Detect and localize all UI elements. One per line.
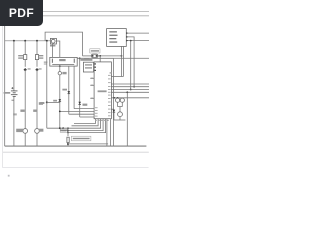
wire low join bbox=[46, 102, 48, 128]
relay switch bar bbox=[52, 63, 74, 65]
power module pin3 wire bbox=[126, 40, 149, 42]
ac label bbox=[40, 102, 44, 104]
indicator lamp A bbox=[116, 98, 120, 102]
connector C3 label bbox=[62, 72, 66, 74]
wire bus out 3 bbox=[111, 89, 149, 91]
wire lamp1 to ground bbox=[24, 134, 26, 147]
node join2 bbox=[62, 127, 64, 129]
wire join horizontal bbox=[47, 127, 63, 129]
wire bus into box y114 bbox=[80, 116, 94, 118]
scan image bottom line bbox=[3, 151, 149, 153]
logic box left stubs bbox=[90, 77, 94, 79]
wire y120 bbox=[114, 119, 126, 121]
wire ac junction to diode line bbox=[47, 101, 60, 103]
wire bus out 1 bbox=[111, 83, 149, 85]
wire top bus B bbox=[5, 15, 149, 17]
node bus2 bbox=[130, 89, 132, 91]
wire ground drop B bbox=[110, 119, 112, 146]
diode D4 right bbox=[111, 108, 114, 110]
fuse F2 label bbox=[39, 55, 43, 56]
wire wrap 3 bbox=[63, 119, 100, 129]
horn relay K1 bbox=[50, 38, 56, 44]
relay contact right bbox=[73, 59, 75, 63]
power module U2 bbox=[107, 29, 127, 47]
wire battery top bbox=[13, 41, 15, 91]
node diode line bus bbox=[59, 111, 61, 113]
wire y76 bbox=[111, 76, 123, 78]
wire lamp C bottom bbox=[119, 117, 121, 120]
wire indicator feed bbox=[111, 97, 149, 99]
wire label C2 right bbox=[33, 110, 37, 112]
wire fuse3 out bbox=[98, 55, 122, 57]
wire top bus A bbox=[5, 11, 149, 13]
resistor R1 current sensor bbox=[67, 128, 69, 136]
diode D3 label bbox=[83, 104, 88, 106]
wire bus into box y106 bbox=[74, 108, 94, 110]
page number speck bbox=[8, 175, 10, 177]
fuse F1 bbox=[24, 55, 27, 60]
relay box label bbox=[59, 59, 65, 61]
horn relay label bbox=[50, 45, 55, 47]
page left edge bbox=[2, 0, 4, 168]
module M1 label above bbox=[80, 59, 92, 61]
wire return y144 bbox=[68, 143, 108, 145]
node wrap5 resistor bbox=[67, 132, 69, 134]
fuse F1 label bbox=[18, 55, 23, 56]
fuse F3 bbox=[91, 54, 98, 57]
wire bus4 drop to ground bbox=[126, 92, 128, 146]
resistor R1 label tag bbox=[71, 136, 91, 141]
wire y58 tail bbox=[113, 57, 149, 59]
battery minus mark bbox=[12, 99, 14, 102]
wire lamp2 to ground bbox=[36, 134, 38, 147]
node ind2 bbox=[117, 97, 119, 99]
node junction feed/battery bbox=[13, 40, 15, 42]
logic box pin labels left column bbox=[91, 78, 98, 117]
wire bus out 4 bbox=[111, 91, 149, 93]
wire fuse2 drop bbox=[36, 41, 38, 55]
wire relay to oval bbox=[59, 66, 61, 71]
lamp L2 bbox=[35, 129, 40, 134]
wire relay pin3 drop bbox=[73, 66, 75, 109]
wire left frame vertical bbox=[4, 12, 6, 147]
splice S1 bbox=[24, 68, 27, 71]
wire pin3 drop bbox=[130, 41, 132, 90]
node junction feed/ac line bbox=[46, 40, 48, 42]
node ac junction bbox=[46, 101, 48, 103]
wire riser to upper bus bbox=[45, 32, 82, 56]
wire join drop bbox=[62, 128, 64, 130]
battery B1 bbox=[11, 91, 18, 97]
battery label bbox=[4, 92, 11, 94]
wire wrap 5 bbox=[68, 119, 106, 133]
wire label C2 left bbox=[20, 110, 24, 112]
node join1 bbox=[59, 127, 61, 129]
wire lamps join bbox=[117, 102, 119, 106]
wire fuse1 drop bbox=[24, 41, 26, 55]
node relay bottom pin bbox=[59, 65, 61, 67]
module M1 pins bbox=[94, 63, 96, 64]
relay contact left bbox=[51, 59, 53, 63]
wire bus out 2 bbox=[111, 86, 149, 88]
wire fuse2 to connector bbox=[36, 60, 38, 67]
wire relay out bbox=[56, 41, 59, 57]
power module bottom pins bbox=[121, 46, 123, 76]
wire long y58 bbox=[77, 57, 113, 59]
wire connector to lamp2 bbox=[36, 70, 38, 129]
lamp L1 bbox=[23, 129, 28, 134]
wire bus into box y112 bbox=[69, 113, 94, 115]
diode D2 label bbox=[62, 89, 67, 91]
wire relay pin2 drop bbox=[68, 66, 70, 114]
PDF badge bbox=[0, 0, 43, 26]
wire wrap 2 bbox=[72, 119, 99, 126]
wire y58 drop to ground bbox=[112, 58, 114, 146]
wire horn relay bottom drop bbox=[52, 44, 54, 57]
wire fuse3 feed bbox=[83, 55, 92, 57]
fuse F3 sublabel bbox=[84, 59, 89, 60]
margin label a bbox=[44, 62, 48, 63]
wire fuse1 to connector bbox=[24, 60, 26, 67]
wire riser into box top bbox=[99, 56, 101, 62]
diode D3 bbox=[78, 102, 81, 105]
wire ac branch bbox=[46, 41, 48, 103]
module M1 mid bbox=[83, 62, 93, 72]
label tag RL bbox=[60, 129, 67, 132]
battery wire label bbox=[13, 113, 17, 115]
module M1 inner text bbox=[85, 64, 92, 65]
node bus1 bbox=[133, 86, 135, 88]
node module pin feed bbox=[121, 55, 123, 57]
horn relay coil bbox=[51, 39, 55, 43]
page bottom edge bbox=[3, 167, 149, 169]
wire oval down bbox=[59, 75, 61, 128]
node bus4 branch bbox=[126, 91, 128, 93]
diode D1 label bbox=[53, 100, 57, 102]
wire battery bottom bbox=[13, 97, 15, 147]
node junction feed/fuse1 bbox=[24, 40, 26, 42]
node resistor ground bbox=[67, 143, 69, 145]
battery plus mark bbox=[11, 87, 13, 90]
wire ground bus bbox=[5, 145, 147, 147]
diode D1 bbox=[59, 99, 62, 102]
logic box bottom pin numbers bbox=[95, 120, 109, 121]
node wrap3 resistor bbox=[67, 127, 69, 129]
node ind1 bbox=[113, 97, 115, 99]
wire feed bus bbox=[5, 40, 51, 42]
logic box U1 bbox=[94, 62, 111, 119]
node wrap4 resistor bbox=[67, 130, 69, 132]
diode D2 bbox=[68, 91, 71, 94]
logic box pin labels right column bbox=[108, 75, 111, 116]
wire connector to lamp1 bbox=[24, 70, 26, 129]
node pin3 branch bbox=[130, 40, 132, 42]
node y58 branch bbox=[79, 57, 81, 59]
node fuse out T bbox=[99, 55, 101, 57]
wire resistor to ground bbox=[67, 142, 69, 146]
logic box label LOW BEAM bbox=[98, 90, 107, 92]
wire ground drop A bbox=[106, 119, 108, 146]
node junction feed/fuse2 bbox=[36, 40, 38, 42]
power module pin2 wire bbox=[126, 37, 134, 87]
wire bus-32 drop bbox=[79, 58, 81, 117]
indicator lamp B bbox=[120, 98, 124, 102]
relay box K2 bbox=[50, 57, 77, 66]
wire wrap 1 bbox=[74, 119, 96, 124]
indicator lamp C bbox=[118, 112, 123, 117]
splice S2 bbox=[35, 68, 38, 71]
logic box label B+ bbox=[110, 72, 112, 73]
fuse F3 label tag bbox=[90, 49, 100, 53]
power module text lines bbox=[109, 31, 117, 43]
power module pin1 wire bbox=[126, 32, 149, 34]
wire wrap 4 bbox=[60, 119, 103, 131]
wire bus into box y109 bbox=[60, 110, 94, 112]
lamp L2 label bbox=[39, 129, 44, 132]
wire label mid bbox=[39, 102, 43, 105]
fuse F2 bbox=[35, 55, 38, 60]
lamp L1 label bbox=[16, 129, 23, 132]
connector C3 oval bbox=[58, 72, 61, 75]
